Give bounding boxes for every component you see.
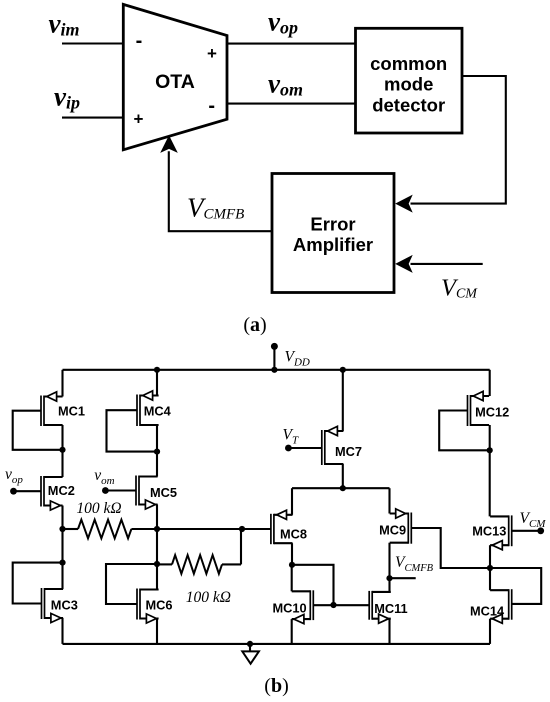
svg-text:MC13: MC13 [472, 523, 506, 538]
svg-text:Error: Error [310, 214, 355, 235]
svg-text:100 kΩ: 100 kΩ [76, 500, 121, 517]
svg-text:100 kΩ: 100 kΩ [186, 589, 231, 606]
svg-text:detector: detector [372, 95, 445, 116]
svg-text:+: + [207, 44, 217, 63]
svg-text:(b): (b) [264, 675, 288, 697]
svg-text:MC3: MC3 [51, 597, 78, 612]
svg-text:Amplifier: Amplifier [293, 234, 373, 255]
svg-text:MC14: MC14 [470, 603, 505, 618]
svg-text:MC1: MC1 [58, 404, 85, 419]
svg-text:MC5: MC5 [150, 485, 177, 500]
svg-text:MC2: MC2 [48, 483, 75, 498]
svg-text:MC7: MC7 [335, 444, 362, 459]
svg-text:OTA: OTA [155, 71, 195, 93]
svg-text:MC6: MC6 [146, 597, 173, 612]
svg-text:mode: mode [384, 74, 433, 95]
svg-text:MC8: MC8 [280, 527, 307, 542]
svg-text:-: - [208, 95, 215, 117]
svg-text:MC12: MC12 [475, 404, 509, 419]
svg-text:common: common [370, 53, 447, 74]
svg-text:MC4: MC4 [144, 403, 172, 418]
svg-text:(a): (a) [243, 314, 266, 336]
svg-text:+: + [134, 110, 144, 129]
svg-text:MC10: MC10 [273, 601, 307, 616]
svg-text:MC11: MC11 [374, 601, 407, 616]
svg-text:MC9: MC9 [379, 522, 406, 537]
svg-text:-: - [136, 30, 143, 52]
